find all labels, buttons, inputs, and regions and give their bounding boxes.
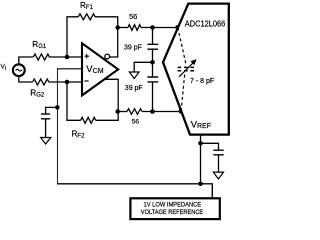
node VREF rail junction: [198, 182, 203, 187]
op-amp - sign: [84, 80, 88, 82]
variable capacitor plates dashed: [178, 67, 195, 70]
ADC12L066 body: [163, 4, 229, 135]
op-amp VCM label: [86, 64, 103, 75]
dashed line bottom input to cap: [181, 72, 185, 111]
label 39pF top: [124, 45, 142, 52]
wire VCM rail vertical: [56, 68, 58, 184]
dashed line top input to cap: [178, 28, 187, 66]
op-amp + sign: [84, 54, 89, 59]
voltage reference box: [130, 198, 219, 219]
node RF1/56 top junction: [115, 25, 120, 30]
node + input junction: [65, 55, 70, 60]
wire VCM cap branch: [46, 107, 58, 137]
wire VCM bottom run to box: [57, 184, 212, 199]
label 7-8 pF: [190, 78, 214, 85]
wire V1 top to RG1: [19, 57, 34, 64]
label 39pF bottom: [125, 85, 143, 92]
resistor 56 top: [128, 25, 141, 31]
node top cap junction: [150, 25, 155, 30]
node ADC bottom input: [179, 109, 184, 114]
label ADC12L066: [185, 19, 226, 28]
svg-text:7 - 8 pF: 7 - 8 pF: [190, 78, 214, 85]
node VREF cap tap: [198, 141, 203, 146]
node VCM cap tap: [55, 105, 60, 110]
resistor RF1: [78, 14, 95, 20]
svg-text:56: 56: [129, 12, 137, 21]
variable capacitor arrow: [179, 59, 197, 77]
wire bottom cap stem: [152, 82, 154, 112]
wire RG1 to op-amp + input: [49, 56, 82, 58]
wire top cap stem: [152, 28, 154, 78]
resistor RG1: [33, 54, 49, 60]
node ADC top input: [175, 25, 180, 30]
wire bottom 56 lead: [118, 111, 127, 113]
wire RG2 to op-amp - input: [49, 81, 82, 83]
wire VREF cap branch: [201, 143, 219, 172]
capacitor VCM bypass: [41, 114, 50, 119]
label VREF: [191, 119, 211, 130]
op-amp output bubble: [105, 54, 110, 59]
resistor RF2: [67, 82, 96, 123]
svg-text:39 pF: 39 pF: [125, 85, 143, 92]
label RG2: [30, 89, 45, 99]
wire V1 bottom to RG2: [19, 77, 33, 83]
svg-text:ADC12L066: ADC12L066: [185, 19, 226, 28]
wire VREF down: [200, 135, 202, 184]
label reference line1: [144, 201, 202, 208]
svg-text:RG2: RG2: [30, 89, 45, 99]
wire mid node to ground: [134, 62, 152, 72]
voltage source V1 circle: [13, 64, 25, 76]
capacitor VREF bypass: [213, 150, 223, 155]
node mid cap ground junction: [150, 60, 155, 65]
svg-text:1V LOW IMPEDANCE: 1V LOW IMPEDANCE: [144, 201, 202, 208]
wire feedback RF1 loop: [67, 17, 118, 57]
label 56 bottom: [132, 118, 140, 125]
capacitor 39pF top: [147, 44, 158, 49]
svg-text:VOLTAGE REFERENCE: VOLTAGE REFERENCE: [141, 209, 203, 216]
svg-text:RF1: RF1: [80, 1, 94, 11]
svg-text:VI: VI: [1, 63, 7, 72]
wire top 56 lead: [118, 27, 128, 29]
wire 56 top to ADC: [141, 27, 178, 29]
resistor 56 bottom: [127, 109, 142, 115]
label reference line2: [141, 209, 203, 216]
label 56 top: [129, 12, 137, 21]
svg-text:39 pF: 39 pF: [124, 45, 142, 52]
op-amp U1 triangle: [82, 43, 118, 95]
wire 56 bottom to ADC: [142, 111, 181, 113]
capacitor 39pF bottom: [147, 77, 158, 82]
wire VCM input: [57, 68, 82, 70]
ground mid: [129, 72, 139, 79]
resistor RG2: [33, 79, 49, 85]
ground VCM: [41, 138, 51, 145]
node - input junction: [65, 80, 70, 85]
ground VREF: [213, 172, 223, 179]
svg-text:RG1: RG1: [32, 40, 47, 50]
node bottom output junction: [115, 109, 120, 114]
label RF2: [72, 129, 86, 139]
label VI: [1, 63, 7, 72]
svg-text:56: 56: [132, 118, 140, 125]
node bottom cap junction: [150, 109, 155, 114]
label RG1: [32, 40, 47, 50]
label RF1: [80, 1, 94, 11]
wire op-amp lower output: [96, 79, 119, 120]
svg-text:RF2: RF2: [72, 129, 86, 139]
